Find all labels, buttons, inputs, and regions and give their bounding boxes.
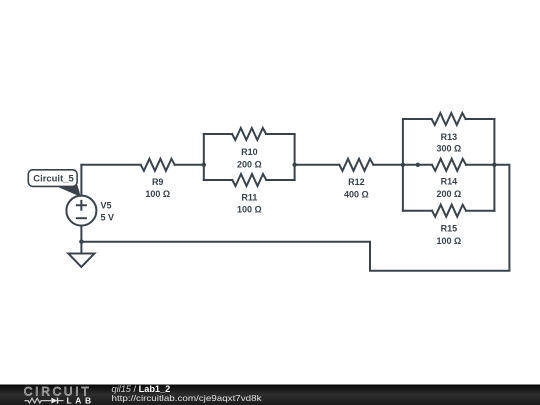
wire V5 bottom to ground [80,226,82,254]
ground [68,254,94,267]
wire V5 top to node [80,165,82,196]
svg-text:R15: R15 [441,224,458,234]
wire block2 left vertical [402,119,404,211]
wire block1 left vertical [203,134,205,180]
V5 label [101,201,112,211]
svg-text:100 Ω: 100 Ω [237,204,262,214]
svg-text:R12: R12 [348,177,365,187]
junction node at block2 left [401,163,405,167]
footer bar [0,385,540,405]
resistor R10 [232,128,266,140]
svg-text:300 Ω: 300 Ω [437,144,462,154]
junction node at block1 right [292,163,296,167]
wire block2 middle right [466,164,494,166]
R11 label [241,192,257,202]
R14 label [441,177,458,187]
svg-text:R11: R11 [241,192,257,202]
resistor R15 [432,205,466,217]
footer title text [112,384,171,394]
wire block2 top right [466,118,495,120]
svg-text:http://circuitlab.com/cje9aqxt: http://circuitlab.com/cje9aqxt7vd8k [112,393,263,403]
junction node at block2 right [492,163,496,167]
R15 label [441,224,458,234]
R10 label [241,147,258,157]
CircuitLab logo [24,385,95,405]
R10 value label [237,159,262,169]
resistor R14 [432,159,466,171]
svg-text:R13: R13 [441,132,458,142]
resistor R13 [432,113,466,125]
resistor R9 [141,159,175,171]
svg-text:LAB: LAB [67,395,95,405]
svg-text:200 Ω: 200 Ω [237,159,262,169]
svg-text:5 V: 5 V [101,213,115,223]
junction node at block1 left [202,163,206,167]
junction node block2 inner [416,163,420,167]
voltage source V5 [66,196,96,226]
net label Circuit_5 callout [28,170,80,196]
junction node at ground [79,240,83,244]
resistor R12 [339,159,373,171]
svg-text:R10: R10 [241,147,258,157]
wire block1 bottom left [204,179,233,181]
svg-text:100 Ω: 100 Ω [437,236,462,246]
R13 value label [437,144,462,154]
wire block2 middle left [403,164,432,166]
R11 value label [237,204,262,214]
resistor R11 [232,174,266,186]
svg-text:200 Ω: 200 Ω [437,189,462,199]
wire node to R9 [81,164,140,166]
wire return path [81,165,509,271]
R9 label [152,177,164,187]
wire block1 right vertical [294,134,296,180]
V5 value label [101,213,115,223]
wire block2 bottom left [403,210,432,212]
wire block1 bottom right [266,179,294,181]
wire block1 top right [266,133,295,135]
svg-text:V5: V5 [101,201,112,211]
wire block2 top left [403,118,432,120]
R9 value label [145,189,170,199]
R15 value label [437,236,462,246]
svg-text:R14: R14 [441,177,458,187]
wire R12 to block2 [373,164,403,166]
wire block1 top left [204,133,232,135]
R14 value label [437,189,462,199]
R12 label [348,177,365,187]
svg-text:100 Ω: 100 Ω [145,189,170,199]
R12 value label [344,189,369,199]
svg-text:400 Ω: 400 Ω [344,189,369,199]
wire R9 to block1 [175,164,204,166]
wire block2 bottom right [466,210,494,212]
footer url text [112,393,263,403]
wire block2 right vertical [493,119,495,211]
svg-text:Circuit_5: Circuit_5 [33,174,74,184]
wire block1 to R12 [295,164,340,166]
R13 label [441,132,458,142]
svg-text:R9: R9 [152,177,164,187]
